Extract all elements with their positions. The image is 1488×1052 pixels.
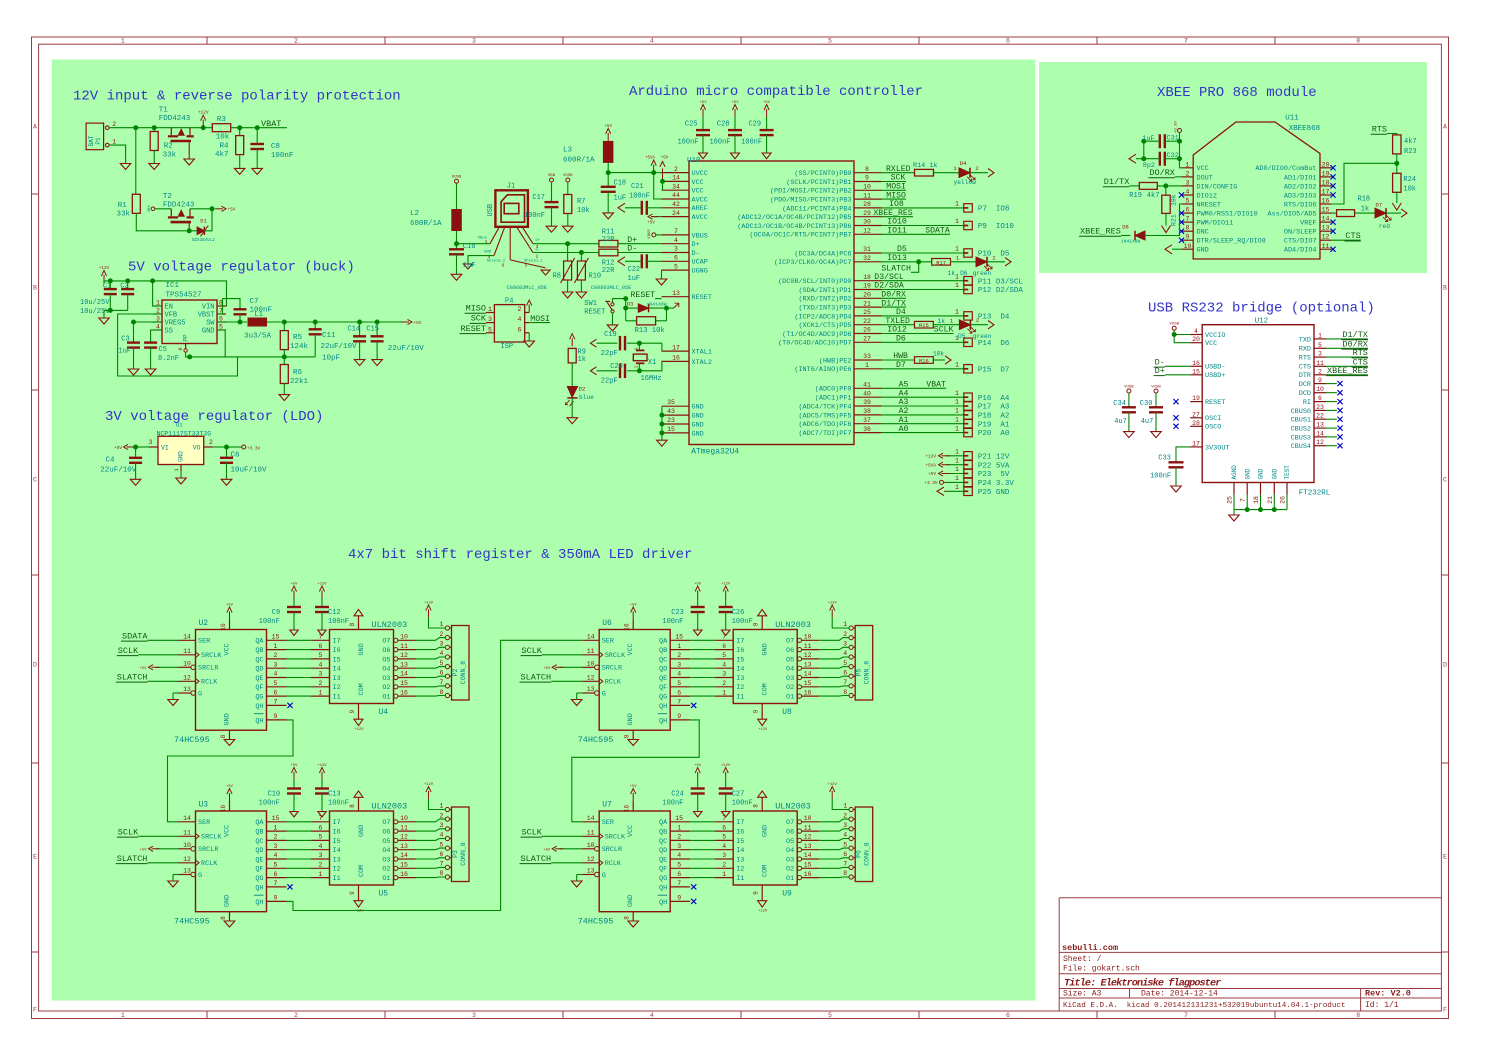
- svg-text:1: 1: [843, 621, 847, 628]
- svg-text:100nF: 100nF: [732, 800, 753, 808]
- svg-text:QH: QH: [659, 899, 667, 907]
- svg-text:GND: GND: [484, 251, 492, 255]
- svg-text:AGND: AGND: [1231, 465, 1238, 480]
- svg-text:18: 18: [1322, 179, 1330, 186]
- svg-text:4: 4: [650, 38, 654, 45]
- svg-text:5: 5: [440, 841, 444, 848]
- svg-text:4: 4: [843, 650, 847, 657]
- svg-text:2: 2: [274, 652, 278, 659]
- svg-text:4: 4: [674, 237, 678, 244]
- svg-text:33: 33: [863, 353, 871, 360]
- svg-text:O1: O1: [786, 875, 794, 883]
- svg-text:12: 12: [1316, 439, 1324, 446]
- svg-text:(ADC6/TDO)PF6: (ADC6/TDO)PF6: [798, 421, 851, 429]
- svg-text:USB: USB: [487, 204, 495, 217]
- svg-text:100nF: 100nF: [524, 212, 545, 220]
- svg-text:I1: I1: [736, 694, 744, 702]
- svg-text:GND: GND: [1272, 468, 1279, 479]
- svg-text:29: 29: [863, 210, 871, 217]
- svg-text:5: 5: [319, 652, 323, 659]
- svg-text:AD4/DIO4: AD4/DIO4: [1284, 247, 1317, 255]
- svg-text:VUSB: VUSB: [452, 176, 462, 180]
- svg-text:11: 11: [804, 643, 812, 650]
- svg-text:P5: P5: [856, 669, 863, 677]
- svg-text:D-: D-: [627, 245, 637, 254]
- svg-text:26: 26: [1280, 496, 1287, 504]
- svg-text:C23: C23: [671, 609, 684, 617]
- svg-text:10: 10: [863, 184, 871, 191]
- svg-text:I2: I2: [736, 866, 744, 874]
- svg-text:16: 16: [672, 355, 680, 362]
- svg-text:DO/RX: DO/RX: [1149, 168, 1175, 178]
- svg-text:3: 3: [1186, 179, 1190, 186]
- svg-text:1: 1: [955, 416, 959, 423]
- svg-text:SLATCH: SLATCH: [117, 672, 148, 682]
- svg-text:R3: R3: [217, 116, 227, 124]
- svg-text:KiCad E.D.A. kicad 0.20141213: KiCad E.D.A. kicad 0.201412131231+532019…: [1063, 1002, 1346, 1010]
- svg-text:D+: D+: [627, 236, 637, 245]
- svg-text:SRCLR: SRCLR: [198, 846, 218, 854]
- svg-text:4: 4: [677, 671, 681, 678]
- svg-text:T1: T1: [159, 107, 169, 115]
- svg-text:EN: EN: [165, 304, 173, 312]
- svg-text:XBEE_RES: XBEE_RES: [873, 209, 912, 218]
- svg-text:9: 9: [1186, 234, 1190, 241]
- svg-text:O5: O5: [382, 656, 390, 664]
- svg-text:1k: 1k: [948, 270, 956, 277]
- svg-text:(ADC5/TMS)PF5: (ADC5/TMS)PF5: [798, 412, 851, 420]
- svg-text:C18: C18: [614, 180, 627, 188]
- svg-text:SLATCH: SLATCH: [521, 854, 552, 864]
- svg-text:10k: 10k: [577, 207, 590, 215]
- svg-text:12: 12: [183, 675, 191, 682]
- svg-text:O4: O4: [786, 666, 794, 674]
- svg-text:+5V: +5V: [647, 222, 655, 226]
- svg-text:(ADC12/OC1A/OC4B/PCINT12)PB5: (ADC12/OC1A/OC4B/PCINT12)PB5: [737, 214, 851, 222]
- svg-text:16: 16: [624, 805, 631, 813]
- svg-text:U6: U6: [602, 619, 612, 628]
- svg-text:VCC: VCC: [692, 188, 704, 196]
- svg-text:SW: SW: [206, 320, 215, 328]
- svg-text:21: 21: [1267, 496, 1274, 504]
- svg-text:QE: QE: [659, 856, 667, 864]
- svg-text:O2: O2: [382, 684, 390, 692]
- svg-text:(OC0A/OC1C/RTS/PCINT7)PB7: (OC0A/OC1C/RTS/PCINT7)PB7: [750, 232, 852, 240]
- svg-text:O5: O5: [382, 838, 390, 846]
- svg-text:+5V: +5V: [291, 583, 299, 587]
- svg-text:RXLED: RXLED: [886, 165, 911, 174]
- svg-text:2: 2: [634, 365, 640, 368]
- svg-text:I4: I4: [333, 666, 341, 674]
- svg-text:(INT6/AINO)PE6: (INT6/AINO)PE6: [794, 366, 851, 374]
- svg-text:DOUT: DOUT: [1197, 174, 1213, 182]
- svg-text:I1: I1: [736, 875, 744, 883]
- svg-text:11: 11: [587, 648, 595, 655]
- svg-text:8: 8: [1356, 1012, 1360, 1019]
- svg-text:SER: SER: [198, 638, 210, 646]
- svg-text:I1: I1: [333, 694, 341, 702]
- svg-text:CTS: CTS: [1299, 364, 1311, 372]
- svg-text:SRCLK: SRCLK: [201, 652, 222, 660]
- svg-text:DTR: DTR: [1299, 372, 1311, 380]
- svg-text:R15: R15: [919, 323, 929, 329]
- svg-text:DIN/CONFIG: DIN/CONFIG: [1197, 183, 1238, 191]
- svg-text:5: 5: [722, 834, 726, 841]
- svg-text:C19: C19: [604, 331, 617, 339]
- svg-text:6: 6: [440, 851, 444, 858]
- svg-text:10: 10: [587, 842, 595, 849]
- svg-text:4: 4: [319, 843, 323, 850]
- svg-text:3: 3: [472, 38, 476, 45]
- svg-text:1: 1: [955, 466, 959, 473]
- svg-text:3: 3: [319, 671, 323, 678]
- svg-text:IO13: IO13: [887, 254, 907, 263]
- svg-text:6: 6: [274, 689, 278, 696]
- svg-text:1: 1: [955, 457, 959, 464]
- svg-text:3: 3: [677, 843, 681, 850]
- svg-text:O1: O1: [786, 694, 794, 702]
- svg-text:FDD4243: FDD4243: [159, 115, 191, 123]
- svg-text:22uF/10V: 22uF/10V: [321, 343, 358, 351]
- svg-text:1: 1: [955, 309, 959, 316]
- svg-text:3V voltage regulator (LDO): 3V voltage regulator (LDO): [105, 409, 323, 425]
- svg-text:+5V: +5V: [731, 101, 739, 105]
- svg-text:blue: blue: [579, 394, 594, 401]
- svg-text:+5V: +5V: [604, 125, 612, 129]
- svg-text:1uF: 1uF: [463, 262, 476, 270]
- svg-text:21: 21: [863, 300, 871, 307]
- svg-text:2: 2: [975, 165, 978, 172]
- svg-text:U12: U12: [1255, 318, 1269, 326]
- svg-text:AD0/DIO0/ComBut: AD0/DIO0/ComBut: [1255, 165, 1316, 173]
- svg-text:(PDI/MOSI/PCINT2)PB2: (PDI/MOSI/PCINT2)PB2: [770, 188, 852, 196]
- svg-text:10: 10: [804, 634, 812, 641]
- svg-text:(PDO/MISO/PCINT3)PB3: (PDO/MISO/PCINT3)PB3: [770, 197, 852, 205]
- svg-text:14: 14: [1322, 216, 1330, 223]
- svg-text:CBUS2: CBUS2: [1291, 426, 1311, 434]
- svg-text:R21: R21: [1171, 214, 1178, 226]
- svg-text:(SS/PCINT0)PB0: (SS/PCINT0)PB0: [794, 170, 851, 178]
- svg-text:VCC: VCC: [627, 825, 635, 837]
- svg-text:13: 13: [1322, 225, 1330, 232]
- svg-text:D3/SCL: D3/SCL: [874, 272, 904, 282]
- svg-text:11: 11: [183, 830, 191, 837]
- svg-text:O7: O7: [382, 819, 390, 827]
- svg-text:+5VA: +5VA: [925, 463, 936, 468]
- svg-text:QC: QC: [659, 838, 667, 846]
- svg-text:1: 1: [955, 201, 959, 208]
- svg-text:6: 6: [674, 255, 678, 262]
- svg-text:C26: C26: [732, 609, 745, 617]
- svg-text:9: 9: [1318, 377, 1322, 384]
- svg-text:13: 13: [804, 843, 812, 850]
- svg-text:GND: GND: [202, 328, 215, 336]
- svg-text:11: 11: [400, 824, 408, 831]
- svg-text:COM: COM: [358, 683, 366, 695]
- svg-text:C28: C28: [717, 120, 730, 128]
- svg-text:10: 10: [400, 815, 408, 822]
- svg-text:3V3OUT: 3V3OUT: [1205, 444, 1229, 452]
- svg-text:4: 4: [1186, 189, 1190, 196]
- svg-text:PWM/DIO11: PWM/DIO11: [1197, 220, 1234, 228]
- svg-text:R8: R8: [553, 273, 561, 281]
- svg-text:2: 2: [112, 121, 116, 128]
- svg-text:1: 1: [722, 871, 726, 878]
- svg-text:8: 8: [624, 734, 631, 738]
- svg-text:U9: U9: [782, 890, 792, 899]
- svg-text:100nF: 100nF: [732, 618, 753, 626]
- svg-text:CONN_8: CONN_8: [864, 842, 871, 866]
- svg-text:3u3/5A: 3u3/5A: [244, 333, 272, 341]
- svg-text:74HC595: 74HC595: [578, 917, 614, 927]
- svg-text:4k7: 4k7: [1404, 138, 1417, 146]
- svg-text:(T0/OC4D/ADC10)PD7: (T0/OC4D/ADC10)PD7: [778, 340, 851, 348]
- svg-text:3: 3: [274, 661, 278, 668]
- svg-text:13: 13: [804, 661, 812, 668]
- svg-text:C11: C11: [322, 332, 336, 340]
- svg-text:RESET: RESET: [1205, 399, 1225, 407]
- svg-text:9: 9: [177, 347, 184, 350]
- svg-text:22uF/10V: 22uF/10V: [388, 345, 425, 353]
- svg-text:+12V: +12V: [317, 764, 327, 768]
- svg-text:20: 20: [1322, 161, 1330, 168]
- svg-text:2: 2: [319, 680, 323, 687]
- svg-text:1: 1: [955, 390, 959, 397]
- svg-text:I4: I4: [736, 666, 744, 674]
- svg-text:10k: 10k: [1171, 194, 1178, 206]
- svg-text:O2: O2: [786, 866, 794, 874]
- svg-text:100nF: 100nF: [741, 139, 762, 147]
- svg-text:1k: 1k: [578, 356, 586, 364]
- svg-text:P24 3.3V: P24 3.3V: [978, 480, 1015, 488]
- svg-text:O7: O7: [382, 638, 390, 646]
- svg-text:+5V: +5V: [928, 472, 936, 477]
- svg-text:12: 12: [587, 856, 595, 863]
- svg-text:XBEE868: XBEE868: [1289, 125, 1321, 133]
- svg-text:+12V: +12V: [925, 454, 936, 459]
- svg-text:+5V: +5V: [543, 667, 551, 671]
- svg-text:SER: SER: [198, 819, 210, 827]
- svg-text:D6: D6: [896, 335, 906, 344]
- svg-text:R7: R7: [577, 198, 585, 206]
- svg-text:SCK: SCK: [471, 314, 487, 324]
- svg-text:VBAT: VBAT: [926, 381, 946, 390]
- svg-text:GND: GND: [692, 421, 704, 429]
- svg-text:22uF/10V: 22uF/10V: [100, 467, 137, 475]
- svg-text:17: 17: [1322, 189, 1330, 196]
- svg-text:(ADC1)PF1: (ADC1)PF1: [815, 395, 852, 403]
- svg-text:8: 8: [843, 689, 847, 696]
- svg-text:O1: O1: [382, 694, 390, 702]
- svg-text:+12V: +12V: [721, 764, 731, 768]
- svg-text:I7: I7: [736, 638, 744, 646]
- svg-text:124k: 124k: [290, 343, 309, 351]
- svg-text:12: 12: [400, 834, 408, 841]
- svg-text:13: 13: [1316, 422, 1324, 429]
- svg-text:C4: C4: [106, 457, 116, 465]
- svg-text:CONN_8: CONN_8: [864, 661, 871, 685]
- svg-text:RCLK: RCLK: [201, 679, 218, 687]
- svg-text:14: 14: [672, 175, 680, 182]
- svg-text:3: 3: [440, 641, 444, 648]
- svg-text:QD: QD: [659, 666, 667, 674]
- svg-text:4: 4: [274, 852, 278, 859]
- svg-text:+5V: +5V: [226, 604, 234, 608]
- svg-text:1: 1: [955, 218, 959, 225]
- svg-text:RESET: RESET: [631, 291, 656, 300]
- svg-text:4: 4: [1194, 328, 1198, 335]
- svg-text:G: G: [198, 872, 202, 880]
- svg-text:O5: O5: [786, 838, 794, 846]
- svg-text:10: 10: [1184, 243, 1192, 250]
- svg-text:15: 15: [1192, 368, 1200, 375]
- svg-text:10u/25V: 10u/25V: [80, 308, 110, 316]
- svg-text:C32: C32: [1167, 152, 1179, 160]
- svg-text:1: 1: [955, 335, 959, 342]
- svg-text:A3: A3: [899, 398, 909, 407]
- svg-text:+5V: +5V: [543, 848, 551, 852]
- svg-text:DTR/SLEEP_RQ/DIO8: DTR/SLEEP_RQ/DIO8: [1197, 238, 1266, 246]
- svg-text:C24: C24: [671, 791, 684, 799]
- svg-text:5: 5: [828, 1012, 832, 1019]
- svg-text:D2/SDA: D2/SDA: [874, 281, 904, 291]
- svg-text:Rev: V2.0: Rev: V2.0: [1365, 989, 1411, 999]
- svg-text:O3: O3: [382, 675, 390, 683]
- svg-text:R19: R19: [1129, 192, 1142, 200]
- svg-text:R10: R10: [589, 273, 602, 281]
- svg-text:CG0603MLC_05E: CG0603MLC_05E: [591, 285, 631, 291]
- svg-text:P21 12V: P21 12V: [978, 453, 1010, 461]
- svg-text:XBEE_RES: XBEE_RES: [1080, 227, 1121, 237]
- svg-text:D+: D+: [536, 239, 541, 243]
- svg-text:1: 1: [112, 138, 116, 145]
- svg-text:+5V: +5V: [694, 764, 702, 768]
- svg-text:(ADC13/OC1B/OC4B/PCINT13)PB6: (ADC13/OC1B/OC4B/PCINT13)PB6: [737, 223, 851, 231]
- svg-text:R16: R16: [919, 359, 929, 365]
- svg-text:CONN_8: CONN_8: [460, 842, 467, 866]
- svg-text:D-: D-: [692, 250, 700, 258]
- svg-text:C10: C10: [268, 791, 281, 799]
- svg-text:+5V: +5V: [414, 321, 422, 326]
- svg-text:QG: QG: [659, 694, 667, 702]
- svg-text:+5V: +5V: [140, 848, 148, 852]
- svg-text:+12V: +12V: [355, 728, 365, 732]
- svg-text:XBEE_RES: XBEE_RES: [1327, 366, 1368, 376]
- svg-text:C27: C27: [732, 791, 745, 799]
- svg-text:100nF: 100nF: [328, 618, 349, 626]
- svg-text:R2: R2: [164, 143, 173, 151]
- svg-text:UCAP: UCAP: [692, 259, 708, 267]
- svg-text:13: 13: [400, 661, 408, 668]
- svg-text:F: F: [33, 1007, 37, 1014]
- svg-text:10k: 10k: [933, 351, 944, 358]
- svg-text:25: 25: [863, 309, 871, 316]
- svg-text:File: gokart.sch: File: gokart.sch: [1063, 965, 1140, 974]
- svg-text:5: 5: [843, 841, 847, 848]
- svg-text:6: 6: [722, 824, 726, 831]
- svg-text:CBUS3: CBUS3: [1291, 434, 1311, 442]
- svg-text:HWB: HWB: [893, 352, 908, 361]
- svg-text:MOSI: MOSI: [530, 315, 550, 324]
- svg-text:O4: O4: [786, 847, 794, 855]
- svg-text:22R: 22R: [602, 267, 615, 275]
- svg-text:6: 6: [1006, 1012, 1010, 1019]
- svg-text:P15 D7: P15 D7: [978, 366, 1010, 374]
- svg-text:P17 A3: P17 A3: [978, 404, 1010, 412]
- svg-text:16: 16: [400, 871, 408, 878]
- svg-text:QF: QF: [659, 684, 667, 692]
- svg-text:8: 8: [440, 689, 444, 696]
- svg-text:IO8: IO8: [889, 200, 904, 209]
- svg-text:100nF: 100nF: [1150, 473, 1171, 481]
- svg-text:CBUS4: CBUS4: [1291, 443, 1311, 451]
- svg-text:33k: 33k: [163, 151, 177, 159]
- svg-text:Title: Elektroniske flagposter: Title: Elektroniske flagposter: [1064, 977, 1221, 989]
- svg-text:C5: C5: [159, 346, 167, 354]
- svg-text:CG0603MLC_05E: CG0603MLC_05E: [507, 285, 547, 291]
- svg-text:14: 14: [400, 671, 408, 678]
- svg-text:15: 15: [272, 815, 280, 822]
- svg-text:100nF: 100nF: [328, 800, 349, 808]
- svg-text:16: 16: [220, 623, 227, 631]
- svg-text:MISO: MISO: [886, 191, 906, 200]
- svg-text:D+: D+: [1155, 366, 1165, 376]
- svg-text:COM: COM: [762, 865, 770, 877]
- svg-text:+12V: +12V: [758, 728, 768, 732]
- svg-text:SER: SER: [602, 638, 614, 646]
- svg-text:VUSB: VUSB: [1151, 385, 1161, 389]
- svg-text:1uF: 1uF: [614, 195, 627, 203]
- svg-text:16: 16: [1192, 360, 1200, 367]
- svg-text:1: 1: [722, 689, 726, 696]
- svg-text:SCLK: SCLK: [522, 827, 543, 837]
- svg-text:19: 19: [1192, 395, 1200, 402]
- svg-text:I5: I5: [736, 656, 744, 664]
- svg-text:U11: U11: [1285, 115, 1299, 123]
- svg-text:AVCC: AVCC: [692, 214, 708, 222]
- svg-text:12: 12: [863, 228, 871, 235]
- svg-text:6: 6: [843, 851, 847, 858]
- svg-text:10: 10: [587, 661, 595, 668]
- svg-text:QB: QB: [255, 647, 263, 655]
- svg-text:12: 12: [804, 834, 812, 841]
- svg-text:1: 1: [955, 475, 959, 482]
- svg-text:I7: I7: [333, 819, 341, 827]
- svg-text:QE: QE: [255, 675, 263, 683]
- svg-text:1: 1: [955, 282, 959, 289]
- svg-text:D1: D1: [200, 219, 206, 225]
- svg-text:ON/SLEEP: ON/SLEEP: [1284, 229, 1317, 237]
- svg-text:PWM0/RSSI/DIO10: PWM0/RSSI/DIO10: [1197, 211, 1258, 219]
- svg-text:VBST: VBST: [198, 312, 215, 320]
- svg-text:20: 20: [863, 292, 871, 299]
- svg-text:QD: QD: [255, 847, 263, 855]
- svg-text:22pF: 22pF: [601, 350, 618, 358]
- svg-text:1: 1: [319, 871, 323, 878]
- svg-text:+3.3V: +3.3V: [1175, 120, 1179, 133]
- svg-text:32: 32: [863, 255, 871, 262]
- svg-text:1uF: 1uF: [628, 275, 641, 283]
- svg-text:Sheet: /: Sheet: /: [1063, 955, 1102, 964]
- svg-text:C20: C20: [610, 363, 623, 371]
- svg-text:G: G: [602, 872, 606, 880]
- svg-text:2: 2: [518, 306, 522, 313]
- svg-text:D5 green: D5 green: [958, 333, 992, 340]
- svg-text:RXD: RXD: [1299, 346, 1311, 354]
- svg-text:10: 10: [804, 815, 812, 822]
- svg-text:+5V: +5V: [291, 764, 299, 768]
- svg-text:yellow: yellow: [954, 179, 977, 186]
